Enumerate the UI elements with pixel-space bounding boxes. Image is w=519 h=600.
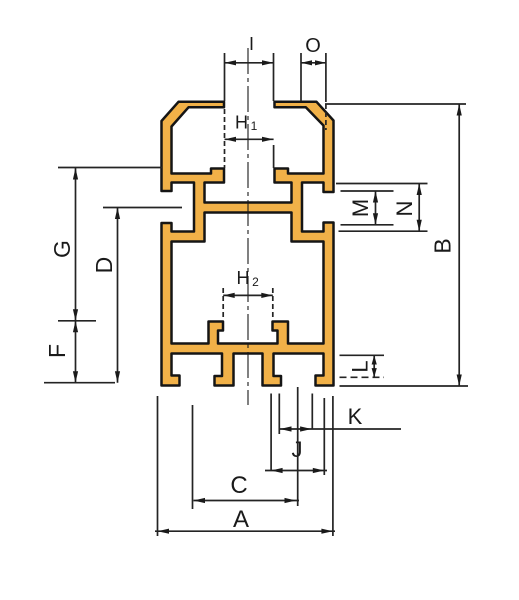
svg-text:C: C (230, 472, 247, 499)
dimension M (341, 191, 394, 225)
dimension G (58, 168, 162, 321)
svg-text:H: H (235, 113, 248, 133)
dimension A (155, 396, 335, 536)
dimension F (44, 321, 115, 383)
dimension N (336, 184, 428, 232)
extrusion profile cross-section (162, 102, 334, 386)
svg-text:N: N (392, 201, 417, 217)
svg-text:M: M (348, 199, 373, 217)
svg-text:G: G (49, 240, 75, 258)
svg-text:A: A (233, 506, 249, 533)
dimension O (301, 53, 326, 130)
dimension B (325, 104, 468, 386)
dimension L (340, 355, 385, 377)
svg-text:I: I (249, 34, 254, 54)
dimension K (279, 394, 401, 435)
svg-text:O: O (305, 35, 321, 57)
svg-text:K: K (348, 404, 363, 429)
svg-text:H: H (237, 268, 250, 288)
dimension I (225, 53, 274, 101)
svg-text:D: D (91, 257, 117, 274)
centerline (247, 48, 249, 405)
dimension C (193, 387, 300, 509)
svg-text:L: L (348, 360, 373, 372)
dimension D (103, 208, 182, 383)
svg-text:2: 2 (252, 275, 259, 289)
svg-text:1: 1 (251, 119, 258, 133)
svg-text:B: B (430, 238, 456, 253)
svg-text:F: F (44, 344, 70, 358)
dimension H1 (225, 109, 274, 168)
dimension J (265, 394, 327, 476)
dimension H2 (223, 288, 273, 319)
